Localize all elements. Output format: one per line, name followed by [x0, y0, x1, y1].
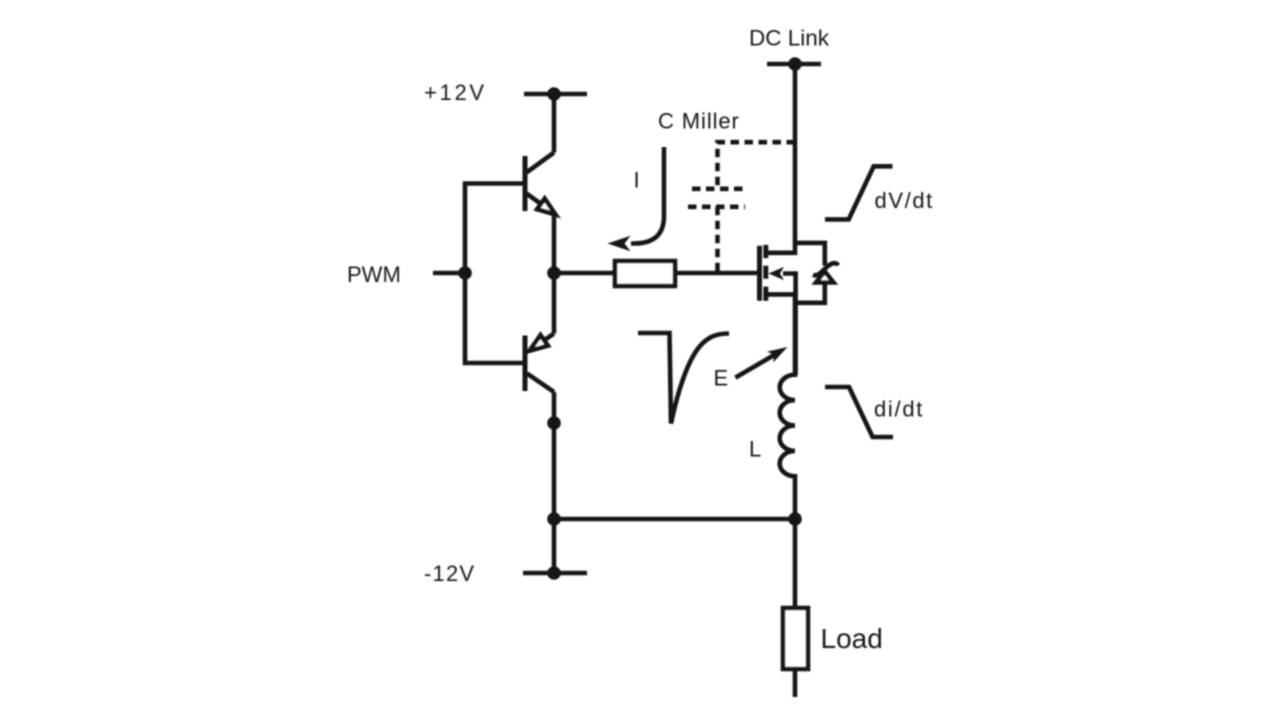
svg-text:dV/dt: dV/dt — [875, 188, 934, 213]
wire bottom return — [554, 517, 795, 522]
node DC Link rail — [767, 62, 821, 67]
capacitor C Miller dashed top link — [718, 142, 796, 189]
waveform E spike — [638, 333, 729, 424]
wire Load bottom — [793, 669, 798, 697]
transistor Q2 emitter diagonal — [541, 334, 554, 343]
waveform dV/dt symbol — [825, 166, 893, 219]
transistor Q2 emitter arrow — [530, 335, 548, 351]
node I arrowhead — [608, 236, 631, 252]
wire I current curve — [631, 147, 664, 244]
transistor Q1 NPN base bar — [523, 156, 528, 211]
wire Q1 emitter to output node — [552, 215, 557, 274]
junction dot PWM node — [458, 266, 472, 280]
node -12V rail — [523, 571, 587, 576]
transistor Q2 PNP base bar — [523, 336, 528, 392]
junction dot collector node — [547, 416, 561, 430]
transistor M1 channel segment middle — [763, 266, 768, 279]
node E arrowhead — [767, 347, 787, 362]
svg-text:DC Link: DC Link — [749, 26, 830, 51]
inductor L1 coils — [780, 294, 795, 519]
resistor Rg gate resistor — [615, 261, 675, 286]
wire E arrow shaft — [735, 355, 775, 378]
svg-text:Load: Load — [821, 623, 883, 654]
svg-text:E: E — [714, 366, 729, 391]
wire Q2 emitter vertical — [552, 273, 557, 334]
svg-text:di/dt: di/dt — [874, 397, 924, 422]
transistor Q1 emitter arrow — [537, 199, 555, 215]
capacitor C Miller top plate — [692, 187, 743, 192]
transistor Q1 emitter diagonal — [527, 194, 542, 205]
wire base bus — [465, 184, 525, 364]
svg-text:C Miller: C Miller — [658, 109, 740, 134]
wire drain vertical from DC Link to MOSFET drain — [767, 64, 796, 253]
transistor M1 bulk arrowhead — [769, 267, 785, 280]
transistor M1 bulk arrow shaft — [783, 274, 796, 295]
transistor M1 channel segment top — [763, 245, 768, 258]
junction dot DC Link — [788, 57, 802, 71]
wire load node to Load — [793, 519, 798, 608]
junction dot emitter bus node — [547, 512, 561, 526]
waveform di/dt symbol — [825, 387, 893, 437]
transistor Q2 collector diagonal — [527, 374, 554, 393]
resistor Load box — [783, 608, 808, 669]
diode D1 anode wire — [795, 283, 825, 303]
svg-text:PWM: PWM — [347, 262, 401, 287]
wire gate resistor to MOSFET gate — [675, 271, 759, 276]
svg-text:I: I — [634, 168, 640, 193]
wire Q1 collector — [552, 94, 557, 153]
junction dot output node — [547, 266, 561, 280]
diode D1 body diode branch top — [795, 243, 825, 266]
junction dot -12V — [547, 566, 561, 580]
svg-text:L: L — [749, 437, 761, 462]
wire Q2 collector to -12V — [552, 392, 557, 573]
transistor M1 MOSFET gate bar — [757, 246, 762, 301]
capacitor C Miller bottom plate — [688, 205, 745, 210]
diode D1 cathode squiggle — [813, 263, 838, 275]
svg-text:-12V: -12V — [424, 561, 475, 586]
capacitor C Miller dashed bottom link — [715, 207, 720, 273]
wire output node to gate resistor — [554, 271, 615, 276]
junction dot +12V — [547, 87, 561, 101]
node +12V rail — [524, 92, 587, 97]
junction dot load node — [788, 512, 802, 526]
transistor M1 channel segment bottom — [763, 287, 768, 301]
diode D1 triangle — [816, 272, 834, 283]
transistor M1 source lead — [767, 294, 796, 375]
wire PWM lead — [433, 271, 465, 276]
svg-text:+12V: +12V — [424, 80, 487, 105]
transistor Q1 collector diagonal — [527, 153, 555, 173]
